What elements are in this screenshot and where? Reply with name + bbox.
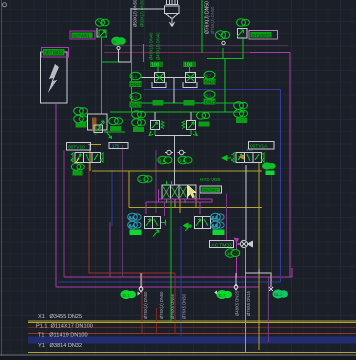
label 00TV1A: [249, 142, 275, 150]
svg-text:Ø45X(J) DN40: Ø45X(J) DN40: [156, 32, 161, 60]
wire red vertical 2: [174, 273, 176, 334]
svg-text:175: 175: [112, 144, 120, 149]
bubble 1.3: [138, 175, 152, 183]
tag 5.1 DN20 left: [130, 72, 143, 87]
svg-text:1.6: 1.6: [160, 158, 166, 163]
main directional valve: [162, 185, 196, 199]
wire white gauge stem: [118, 50, 120, 62]
wire green right riser: [224, 59, 226, 113]
svg-text:00TV10: 00TV10: [68, 145, 85, 151]
label GT100#1: [249, 31, 278, 40]
svg-text:Ø76X5 DN50: Ø76X5 DN50: [182, 293, 187, 319]
svg-text:00TW01: 00TW01: [73, 33, 91, 38]
wire yellow main riser: [258, 163, 260, 350]
bubble group sub left: [0, 0, 1, 1]
cluster lower-right valve: [184, 217, 211, 232]
wire maroon pressure run top: [104, 52, 250, 54]
flow arrow mid bottom: [234, 273, 238, 290]
wire blue mid drop: [180, 226, 182, 336]
wire blue right riser: [280, 90, 282, 283]
svg-text:Ø48X5 DN25: Ø48X5 DN25: [235, 290, 240, 316]
wire magenta valve stub left: [145, 202, 147, 214]
svg-text:00TV1A: 00TV1A: [250, 144, 268, 150]
note cyan 175 left: [109, 143, 128, 149]
wire white supply top: [131, 8, 165, 10]
svg-text:1.3: 1.3: [140, 177, 146, 182]
sv valve left (solenoid): [152, 73, 166, 88]
wire green left riser: [131, 62, 133, 112]
svg-text:Ø76X(J) DN50: Ø76X(J) DN50: [143, 291, 148, 319]
wire green tank drop: [170, 200, 172, 322]
frame border left: [1, 0, 3, 360]
wire magenta lower bus: [64, 268, 292, 277]
wire purple vert x122: [122, 145, 124, 277]
svg-text:HYD VDB: HYD VDB: [200, 177, 220, 182]
bubble GT top: [237, 19, 250, 27]
wire yellow pump drop: [245, 248, 247, 353]
pipe spec vertical texts green: [149, 32, 161, 60]
svg-text:5.1: 5.1: [132, 95, 138, 100]
wire magenta drain drop: [268, 277, 270, 342]
UCS icon: [3, 3, 7, 7]
svg-text:P1.1 Ø114X17 DN100: P1.1 Ø114X17 DN100: [36, 324, 93, 330]
gauge PI 1.6: [158, 150, 173, 164]
wire magenta valve stub right: [199, 202, 201, 214]
svg-text:Ø50X(J) DN50: Ø50X(J) DN50: [140, 0, 145, 27]
wire magenta stub right cluster: [236, 238, 238, 277]
wire green right gauge stub: [223, 38, 243, 59]
pipe spec vertical texts bottom white: [143, 290, 251, 319]
wire blue left stub: [111, 170, 113, 226]
wire blue return bottom: [58, 281, 281, 283]
wire magenta supply top run: [250, 53, 290, 278]
filter unit box: [88, 114, 108, 136]
valve port rail magenta: [159, 199, 213, 202]
wire magenta drop right label: [226, 194, 228, 240]
cluster lower-left bubbles: [128, 213, 142, 235]
cluster lower-left valve: [145, 217, 166, 237]
wire white valve stubs: [154, 112, 156, 121]
wire magenta left riser: [56, 104, 260, 287]
bubble pair mid: [109, 117, 123, 131]
pump circle: [238, 240, 253, 247]
label AC TM33: [210, 241, 234, 249]
wire purple faint upper: [104, 45, 288, 47]
svg-text:1.2: 1.2: [212, 215, 218, 220]
wire red vertical 1: [141, 273, 143, 334]
wire green left header: [101, 37, 103, 114]
wire white mid drop: [173, 77, 175, 103]
svg-text:5.1: 5.1: [132, 74, 138, 79]
svg-text:Ø50X(J) DN50: Ø50X(J) DN50: [133, 0, 138, 27]
wire blue right drop: [271, 175, 273, 282]
aux cluster upper-left: [94, 125, 112, 139]
gauge PI 1.8: [178, 150, 193, 164]
wire yellow bottom bus: [28, 322, 356, 324]
wire green manifold bus: [110, 111, 245, 113]
bubble LT filled bottom-left: [121, 290, 141, 299]
wire green stub x143: [143, 44, 145, 62]
wire green cluster link left: [104, 131, 125, 133]
bubble small below pump: [225, 249, 239, 257]
cluster lower-right bubbles: [211, 213, 225, 235]
svg-text:DN20: DN20: [205, 80, 217, 85]
svg-text:1.4: 1.4: [129, 223, 135, 228]
wire green header lower: [131, 102, 244, 104]
label DN box left valve: [153, 100, 195, 106]
wire white supply riser: [130, 8, 132, 62]
prop valve left: [71, 153, 103, 165]
pipe T1 legend blue band: [28, 337, 356, 344]
wire red left drop: [89, 163, 175, 273]
wire white right pump drop: [245, 165, 247, 240]
sv valve right (solenoid): [183, 73, 197, 88]
svg-text:Ø76X5 DN15: Ø76X5 DN15: [246, 290, 251, 316]
bubble TI filled left: [111, 37, 125, 50]
wire yellow left valve feed: [92, 170, 262, 172]
svg-text:11.: 11.: [113, 39, 118, 44]
pipe spec vertical texts top white: [133, 0, 216, 34]
cursor arrow: [188, 186, 196, 198]
svg-text:Y1 Ø3814 DN32: Y1 Ø3814 DN32: [38, 343, 82, 349]
wire blue T-line top: [144, 89, 281, 91]
arrow magenta right cluster: [234, 238, 240, 244]
valve hand top-left: [97, 28, 107, 37]
svg-text:DN20: DN20: [131, 82, 143, 87]
label 00TW01: [70, 31, 95, 39]
svg-text:AC TM33: AC TM33: [212, 242, 233, 248]
pipe P1.1 legend red line: [28, 327, 356, 329]
prop valve right: [232, 153, 265, 163]
svg-text:SL.1: SL.1: [274, 292, 283, 297]
tag 5.7 DN20 right: [204, 71, 217, 84]
bubble stack right B: [132, 111, 146, 132]
bubble manifold right pair: [234, 102, 248, 123]
wire red vertical x156: [156, 308, 158, 334]
accumulator top: [165, 0, 180, 27]
bubble cluster 1.x mid pair: [196, 112, 209, 127]
arrows green right prop inlet: [222, 156, 231, 161]
svg-text:100: 100: [184, 62, 193, 68]
svg-text:1.1: 1.1: [129, 215, 135, 220]
svg-text:6.1: 6.1: [206, 93, 212, 98]
flash mixer box: [41, 48, 69, 104]
svg-text:11.1: 11.1: [122, 293, 130, 298]
svg-text:1.5: 1.5: [212, 223, 218, 228]
valve GT drain: [237, 29, 247, 39]
bubble PI right top: [216, 31, 230, 45]
relief valve left: [149, 121, 164, 136]
bubble PI 10.1 top-left: [96, 19, 110, 27]
pipe Y1 legend yellow line: [28, 352, 356, 354]
label DN25#1 at valve: [200, 186, 222, 193]
svg-text:T1 Ø11419 DN100: T1 Ø11419 DN100: [38, 333, 88, 339]
svg-text:Ø76X(J) DN50: Ø76X(J) DN50: [159, 291, 164, 319]
svg-text:12: 12: [227, 251, 232, 256]
label 100mg right: [183, 62, 196, 73]
wire white gauge manifold: [155, 135, 191, 137]
wire grey valve inlet: [174, 136, 176, 186]
orange arrow right prop: [238, 155, 244, 160]
svg-text:DN25: DN25: [131, 103, 143, 108]
tag 5.1 DN25 left: [130, 93, 143, 108]
pipe X1 legend yellow line: [28, 320, 356, 322]
wire purple vert x156: [155, 150, 157, 213]
wire green left branch: [102, 61, 119, 63]
bubble LT filled bottom-mid: [214, 290, 232, 299]
svg-text:Ø76X5 DN65: Ø76X5 DN65: [170, 293, 175, 319]
connector white right: [246, 269, 274, 291]
svg-text:11.2: 11.2: [218, 293, 226, 298]
bubble SL filled: [273, 290, 289, 299]
frame border bottom: [0, 354, 356, 356]
wire white pump pipe: [142, 77, 205, 79]
wire yellow valve drops: [174, 199, 176, 207]
svg-text:DN25: DN25: [205, 100, 217, 105]
svg-text:Ø76X(J) DN50: Ø76X(J) DN50: [210, 6, 215, 34]
tag 6.1 DN25 right: [204, 91, 217, 105]
wire magenta return bus: [63, 150, 65, 277]
wire magenta stub left cluster: [109, 222, 111, 277]
bubble stack left A: [74, 107, 88, 127]
svg-text:Ø45X(J) DN40: Ø45X(J) DN40: [149, 32, 154, 60]
label 100mg left: [150, 62, 163, 73]
wire yellow valve elbow: [191, 195, 196, 207]
svg-text:00TW03: 00TW03: [44, 51, 63, 57]
wire green right supply: [201, 0, 203, 53]
svg-text:1.8: 1.8: [180, 158, 186, 163]
svg-text:GT100#1: GT100#1: [252, 33, 272, 38]
svg-text:5.7: 5.7: [206, 73, 212, 78]
svg-text:X1 Ø3455 DN25: X1 Ø3455 DN25: [38, 314, 82, 320]
bubble 1.x right prop: [262, 162, 276, 175]
wire magenta valve stub mid: [164, 202, 166, 216]
relief valve right: [182, 121, 197, 136]
wire yellow upper stub: [89, 145, 91, 172]
flow arrow left bottom: [139, 273, 143, 292]
svg-text:DN25#1: DN25#1: [203, 188, 218, 193]
label 00TV10: [67, 143, 91, 151]
bubble 1.x left prop: [71, 163, 84, 175]
